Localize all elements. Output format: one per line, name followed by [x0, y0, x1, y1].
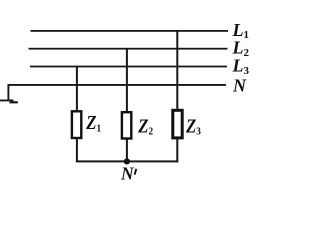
svg-text:N: N — [232, 76, 247, 96]
svg-text:N: N — [120, 164, 135, 184]
prime tick of N' — [135, 169, 137, 175]
wire Z2 lower lead — [126, 139, 128, 163]
wire line L3 — [30, 66, 227, 68]
wire branch from L3 to Z1 — [76, 66, 78, 111]
wire branch from L2 to Z2 — [126, 48, 128, 112]
resistor Z3 — [173, 110, 182, 138]
resistor Z1 — [72, 111, 81, 138]
wire bottom bus to N' — [76, 160, 178, 162]
ground — [0, 100, 18, 104]
wire Z3 lower lead — [176, 139, 178, 162]
junction dot N' — [124, 158, 130, 164]
wire line L1 — [31, 30, 229, 32]
wire branch from L1 to Z3 — [176, 30, 178, 110]
svg-text:Z1: Z1 — [85, 112, 101, 135]
wire line N — [8, 85, 226, 100]
svg-text:Z3: Z3 — [185, 115, 201, 138]
svg-text:Z2: Z2 — [137, 115, 153, 138]
resistor Z2 — [122, 112, 131, 138]
wire line L2 — [29, 48, 228, 50]
wire Z1 lower lead — [76, 138, 78, 162]
